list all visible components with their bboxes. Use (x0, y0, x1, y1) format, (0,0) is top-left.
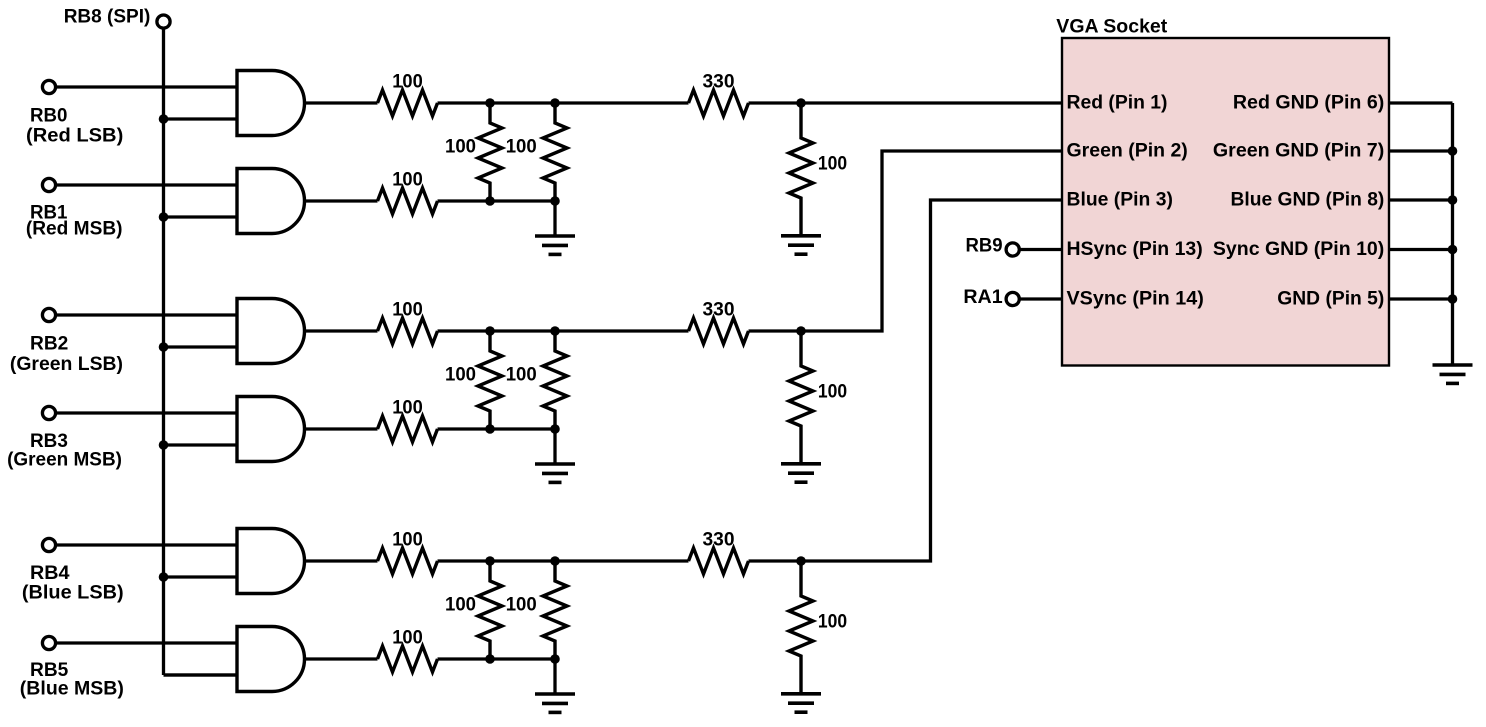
svg-text:100: 100 (445, 594, 476, 616)
svg-text:Green GND (Pin 7): Green GND (Pin 7) (1213, 140, 1384, 162)
svg-text:100: 100 (818, 611, 847, 633)
svg-text:Red (Pin 1): Red (Pin 1) (1067, 92, 1168, 114)
svg-text:RA1: RA1 (963, 286, 1002, 308)
svg-text:(Blue LSB): (Blue LSB) (22, 582, 124, 604)
svg-text:100: 100 (506, 594, 537, 616)
svg-text:Green (Pin 2): Green (Pin 2) (1067, 140, 1188, 162)
svg-text:RB8 (SPI): RB8 (SPI) (64, 5, 151, 27)
svg-text:GND (Pin 5): GND (Pin 5) (1277, 288, 1384, 310)
svg-text:330: 330 (703, 299, 735, 321)
svg-text:(Blue MSB): (Blue MSB) (20, 678, 124, 700)
svg-text:HSync (Pin 13): HSync (Pin 13) (1067, 238, 1203, 260)
svg-text:100: 100 (506, 364, 537, 386)
svg-text:RB2: RB2 (30, 332, 68, 354)
svg-text:330: 330 (703, 529, 735, 551)
svg-text:100: 100 (445, 364, 476, 386)
svg-text:100: 100 (392, 529, 423, 551)
svg-text:(Green MSB): (Green MSB) (7, 449, 122, 471)
svg-text:100: 100 (392, 169, 423, 191)
svg-text:RB9: RB9 (966, 234, 1003, 256)
svg-text:100: 100 (392, 627, 423, 649)
svg-text:100: 100 (392, 71, 423, 93)
svg-text:100: 100 (506, 136, 537, 158)
svg-text:Blue GND (Pin 8): Blue GND (Pin 8) (1231, 189, 1385, 211)
svg-text:100: 100 (392, 299, 423, 321)
svg-text:(Red LSB): (Red LSB) (26, 125, 123, 147)
svg-text:100: 100 (445, 136, 476, 158)
svg-text:330: 330 (703, 71, 735, 93)
svg-text:Blue (Pin 3): Blue (Pin 3) (1067, 189, 1173, 211)
svg-text:Sync GND (Pin 10): Sync GND (Pin 10) (1213, 238, 1384, 260)
svg-text:100: 100 (818, 381, 847, 403)
svg-text:(Green LSB): (Green LSB) (10, 353, 123, 375)
svg-text:VSync (Pin 14): VSync (Pin 14) (1067, 288, 1204, 310)
svg-text:100: 100 (818, 153, 847, 175)
svg-text:(Red MSB): (Red MSB) (26, 218, 123, 240)
svg-text:Red GND (Pin 6): Red GND (Pin 6) (1233, 92, 1384, 114)
svg-text:VGA Socket: VGA Socket (1056, 16, 1167, 38)
svg-text:RB0: RB0 (30, 104, 68, 126)
svg-text:100: 100 (392, 397, 423, 419)
